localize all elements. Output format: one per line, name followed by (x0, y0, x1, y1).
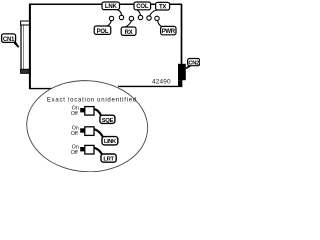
wire top edge (29, 3, 182, 5)
wire bottom edge left segment (29, 88, 58, 90)
LED D2 (119, 15, 123, 19)
svg-text:PWR: PWR (162, 29, 176, 35)
LED D5 (147, 16, 151, 20)
label PWR (161, 26, 176, 35)
LED D4 (138, 15, 142, 19)
switch SW1 (SQE) (71, 105, 115, 123)
label TX (156, 2, 170, 10)
wire leader to LRT (94, 148, 102, 155)
switch knob (80, 128, 84, 132)
label SQE (100, 115, 115, 123)
connector CN2 lower step (178, 80, 182, 86)
label LINK (102, 137, 118, 145)
switch knob (80, 147, 84, 151)
transceiver body outline (29, 4, 182, 90)
svg-text:TX: TX (159, 4, 166, 10)
wire leader LNK to LED D2 (117, 10, 121, 16)
wire right edge (181, 4, 183, 87)
wire bottom edge right segment (118, 85, 182, 87)
wire leader PWR to LED D6 (158, 21, 162, 27)
LED D6 (155, 16, 159, 20)
wire leader TX to LED D5 (150, 10, 157, 16)
switch SW3 (LRT) (71, 144, 116, 162)
svg-text:COL: COL (136, 4, 149, 10)
connector top tab (21, 21, 30, 25)
switch SW2 (LINK) (71, 126, 118, 146)
switch body (85, 107, 94, 116)
LED D1 (109, 16, 113, 20)
wire leader to SQE (94, 109, 101, 116)
switch body (85, 127, 94, 136)
label LRT (101, 154, 116, 162)
wire left edge (29, 4, 31, 90)
svg-text:LRT: LRT (103, 157, 114, 163)
svg-text:Off: Off (71, 150, 78, 156)
connector CN1 (AUI DB15 side view) (21, 21, 30, 73)
svg-text:Exact location unidentified: Exact location unidentified (47, 97, 137, 103)
LED D3 (129, 16, 133, 20)
svg-text:RX: RX (125, 30, 133, 36)
switch body (85, 145, 94, 154)
wire leader to LINK (94, 129, 103, 137)
callout ellipse (exact location unidentified) (24, 77, 150, 175)
svg-text:42490: 42490 (152, 78, 171, 85)
wire leader POL to LED D1 (108, 21, 112, 26)
svg-text:LINK: LINK (104, 139, 117, 145)
wire leader RX to LED D3 (126, 21, 132, 27)
label COL (134, 2, 151, 10)
svg-text:Off: Off (71, 131, 78, 137)
svg-text:CN1: CN1 (3, 37, 15, 43)
connector CN2 (BNC stub, filled) (178, 64, 186, 80)
connector bottom tab (21, 69, 30, 73)
connector face plate (20, 22, 22, 73)
svg-text:SQE: SQE (102, 118, 114, 124)
label POL (94, 26, 111, 35)
wire leader COL to LED D4 (137, 10, 140, 15)
svg-text:Off: Off (71, 111, 78, 117)
label CN2 (186, 59, 200, 69)
label LNK (102, 2, 120, 10)
svg-text:POL: POL (97, 29, 109, 35)
label CN1 (2, 34, 19, 47)
svg-text:LNK: LNK (105, 4, 118, 10)
label RX (121, 27, 136, 36)
svg-text:CN2: CN2 (188, 60, 199, 66)
switch knob (80, 108, 84, 112)
